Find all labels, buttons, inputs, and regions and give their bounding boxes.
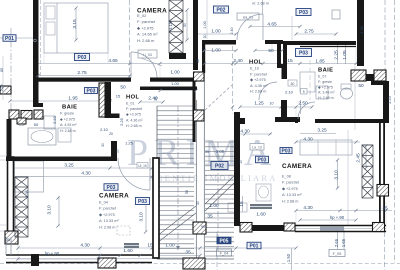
svg-text:F: parchet: F: parchet (282, 181, 300, 185)
svg-text:4.65: 4.65 (267, 22, 277, 28)
svg-text:1.60: 1.60 (256, 212, 266, 218)
svg-text:H: 2.08 m: H: 2.08 m (99, 225, 115, 229)
svg-text:2.20: 2.20 (0, 85, 4, 92)
svg-text:2.75: 2.75 (77, 70, 87, 76)
svg-text:m: 2.68 m: m: 2.68 m (252, 2, 269, 6)
svg-text:P03: P03 (299, 50, 308, 56)
svg-text:BAIE: BAIE (62, 105, 77, 111)
svg-text:1.65: 1.65 (341, 238, 346, 247)
svg-text:1.00: 1.00 (171, 81, 180, 86)
svg-text:1.00: 1.00 (165, 243, 175, 249)
svg-text:CAMERA: CAMERA (282, 163, 312, 170)
svg-text:35: 35 (207, 214, 213, 220)
svg-text:P02: P02 (217, 7, 226, 13)
svg-text:1.25: 1.25 (125, 141, 134, 146)
svg-text:◆ +2.975: ◆ +2.975 (282, 187, 298, 191)
svg-text:2.10: 2.10 (100, 127, 109, 132)
svg-text:◆ +2.975: ◆ +2.975 (137, 25, 154, 30)
svg-text:E_04: E_04 (99, 201, 108, 205)
svg-text:E_02: E_02 (137, 13, 147, 18)
svg-text:H: 2.68 m: H: 2.68 m (250, 90, 266, 94)
svg-text:F: parchet: F: parchet (137, 19, 156, 24)
svg-text:CAMERA: CAMERA (99, 193, 129, 200)
svg-text:1.00: 1.00 (203, 21, 207, 28)
svg-text:2.75: 2.75 (304, 29, 314, 35)
svg-text:BAIE: BAIE (318, 68, 333, 74)
svg-text:◆ +2.975: ◆ +2.975 (60, 117, 75, 121)
svg-text:P05: P05 (220, 238, 229, 244)
svg-text:1.05: 1.05 (342, 50, 348, 60)
svg-text:Li_03: Li_03 (143, 53, 152, 57)
svg-text:◆ +2.975: ◆ +2.975 (126, 113, 141, 117)
svg-text:15: 15 (147, 243, 153, 249)
svg-text:F: parchet: F: parchet (99, 207, 117, 211)
svg-text:F_04: F_04 (220, 252, 229, 256)
svg-text:85: 85 (0, 68, 4, 72)
svg-text:2.45: 2.45 (356, 153, 362, 163)
svg-text:3.10: 3.10 (139, 212, 145, 222)
svg-text:50: 50 (185, 190, 189, 194)
svg-text:50: 50 (268, 48, 274, 54)
svg-text:1.00: 1.00 (211, 29, 221, 35)
svg-text:35: 35 (154, 97, 158, 101)
svg-text:A: 13.33 m²: A: 13.33 m² (99, 219, 119, 223)
svg-text:2.35: 2.35 (25, 190, 29, 197)
svg-text:◆ +2.975: ◆ +2.975 (250, 78, 266, 82)
svg-text:50: 50 (34, 122, 39, 127)
svg-text:20: 20 (116, 149, 120, 153)
svg-text:H: 2.68 m: H: 2.68 m (60, 129, 76, 133)
svg-text:2.40: 2.40 (233, 58, 243, 64)
svg-text:2.50: 2.50 (298, 101, 308, 107)
svg-text:3.25: 3.25 (317, 128, 327, 134)
svg-text:10: 10 (239, 160, 243, 164)
svg-text:A: 14.65 m²: A: 14.65 m² (137, 32, 158, 37)
svg-text:10: 10 (270, 102, 274, 106)
svg-text:F: gresie: F: gresie (60, 112, 74, 116)
svg-text:A: 4.36 m²: A: 4.36 m² (250, 84, 268, 88)
svg-text:4.30: 4.30 (303, 205, 313, 211)
svg-text:1.85: 1.85 (315, 59, 325, 65)
svg-text:4.30: 4.30 (360, 26, 364, 33)
svg-text:H: 2.68 m: H: 2.68 m (318, 96, 334, 100)
svg-text:A: 4.36 m²: A: 4.36 m² (126, 118, 143, 122)
svg-text:2.25: 2.25 (119, 117, 124, 126)
svg-text:50: 50 (120, 85, 126, 91)
svg-text:4.30: 4.30 (303, 137, 313, 143)
svg-text:A: 13.33 m²: A: 13.33 m² (282, 193, 302, 197)
svg-text:◆ +2.975: ◆ +2.975 (99, 213, 115, 217)
svg-text:30: 30 (196, 59, 200, 63)
svg-text:E_01: E_01 (126, 102, 134, 106)
svg-text:3.15: 3.15 (72, 19, 78, 29)
svg-text:H: 2.68 m: H: 2.68 m (137, 38, 155, 43)
svg-text:1.00: 1.00 (211, 48, 221, 54)
svg-text:P03: P03 (138, 199, 147, 205)
svg-text:P03: P03 (107, 185, 116, 191)
svg-text:P02: P02 (215, 163, 224, 169)
svg-text:2.10: 2.10 (285, 90, 294, 95)
svg-text:50: 50 (183, 23, 187, 27)
svg-text:P03: P03 (299, 10, 308, 16)
svg-text:2.10: 2.10 (388, 96, 392, 103)
svg-text:35: 35 (185, 250, 191, 256)
svg-text:90: 90 (201, 225, 205, 229)
svg-text:Ui_15: Ui_15 (138, 164, 147, 168)
svg-text:1.60: 1.60 (123, 248, 133, 254)
svg-text:4.30: 4.30 (81, 171, 91, 177)
svg-text:1.00: 1.00 (209, 203, 219, 209)
svg-text:2.25: 2.25 (334, 50, 340, 60)
svg-text:E_08: E_08 (282, 175, 291, 179)
svg-text:3.10: 3.10 (47, 205, 53, 215)
svg-text:30: 30 (196, 201, 200, 205)
svg-text:F: gresie: F: gresie (318, 80, 332, 84)
svg-text:3.25: 3.25 (64, 163, 74, 169)
svg-text:80: 80 (291, 82, 295, 86)
svg-text:15: 15 (287, 58, 293, 64)
svg-text:1.25: 1.25 (254, 101, 264, 107)
svg-text:1.95: 1.95 (68, 96, 78, 102)
svg-text:20: 20 (109, 132, 113, 136)
svg-text:AGENTIE IMOBILIARA: AGENTIE IMOBILIARA (148, 173, 278, 183)
svg-text:hp +.90: hp +.90 (45, 251, 60, 256)
svg-text:A: 3.48 m²: A: 3.48 m² (318, 91, 335, 95)
svg-text:15: 15 (239, 201, 245, 207)
svg-text:hp +.90: hp +.90 (330, 215, 345, 220)
svg-text:5: 5 (303, 90, 305, 94)
svg-text:30: 30 (101, 143, 105, 147)
svg-text:35: 35 (6, 238, 10, 242)
svg-text:F: parchet: F: parchet (126, 107, 142, 111)
svg-text:15: 15 (116, 94, 121, 99)
svg-text:4.30: 4.30 (240, 129, 250, 135)
svg-text:HOL: HOL (126, 95, 139, 101)
svg-text:H: 2.68 m: H: 2.68 m (282, 199, 298, 203)
svg-text:1.50: 1.50 (286, 253, 291, 262)
svg-text:HOL: HOL (249, 60, 262, 66)
svg-text:1.00: 1.00 (170, 70, 180, 76)
svg-text:3.15: 3.15 (168, 21, 174, 31)
svg-text:2.20: 2.20 (52, 115, 57, 124)
svg-text:2.65: 2.65 (334, 238, 339, 247)
svg-text:P03: P03 (282, 148, 291, 154)
svg-text:A: 4.53 m²: A: 4.53 m² (60, 123, 77, 127)
svg-text:P01: P01 (5, 36, 14, 42)
svg-text:La_13: La_13 (252, 146, 262, 150)
svg-text:E_10: E_10 (250, 67, 259, 71)
svg-text:◆ +2.975: ◆ +2.975 (318, 85, 333, 89)
svg-text:H: 2.68 m: H: 2.68 m (126, 124, 142, 128)
svg-text:4.65: 4.65 (108, 58, 118, 64)
svg-text:E_07: E_07 (318, 75, 326, 79)
svg-text:50: 50 (358, 83, 364, 89)
svg-text:F_05: F_05 (333, 252, 342, 256)
svg-text:F: parchet: F: parchet (250, 72, 268, 76)
svg-text:1.00: 1.00 (216, 149, 225, 154)
svg-text:4.30: 4.30 (80, 243, 90, 249)
svg-text:P03: P03 (258, 157, 267, 163)
svg-text:35: 35 (205, 150, 209, 154)
svg-text:35: 35 (382, 206, 388, 212)
svg-text:P01: P01 (250, 243, 259, 249)
svg-text:30: 30 (203, 35, 207, 39)
svg-text:2.40: 2.40 (230, 28, 234, 35)
svg-text:P03: P03 (78, 55, 87, 61)
svg-text:P03: P03 (87, 88, 96, 94)
svg-text:3.10: 3.10 (334, 170, 340, 180)
